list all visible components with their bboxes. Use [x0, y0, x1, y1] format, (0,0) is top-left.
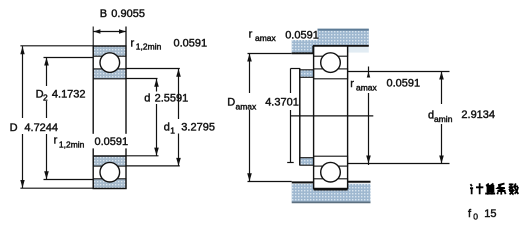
svg-text:amax: amax — [255, 33, 277, 43]
svg-text:4.1732: 4.1732 — [52, 88, 86, 100]
svg-text:amax: amax — [356, 83, 378, 93]
svg-text:2.9134: 2.9134 — [461, 109, 495, 121]
svg-text:2.5591: 2.5591 — [155, 92, 189, 104]
svg-text:1,2min: 1,2min — [136, 42, 162, 52]
svg-text:4.3701: 4.3701 — [265, 97, 299, 109]
svg-text:2: 2 — [43, 93, 48, 103]
svg-text:d: d — [164, 121, 170, 133]
svg-text:4.7244: 4.7244 — [24, 122, 58, 134]
svg-text:1,2min: 1,2min — [59, 139, 85, 149]
svg-text:r: r — [249, 29, 253, 41]
svg-text:r: r — [131, 37, 135, 49]
svg-text:15: 15 — [484, 208, 496, 220]
svg-text:3.2795: 3.2795 — [181, 121, 215, 133]
svg-text:r: r — [350, 78, 354, 90]
svg-text:0.0591: 0.0591 — [174, 37, 208, 49]
svg-text:0.0591: 0.0591 — [285, 29, 319, 41]
svg-text:B: B — [100, 8, 107, 20]
svg-text:0: 0 — [473, 212, 478, 222]
svg-text:0.0591: 0.0591 — [95, 136, 129, 148]
svg-text:0.0591: 0.0591 — [387, 78, 421, 90]
svg-text:amax: amax — [236, 101, 258, 111]
svg-text:r: r — [54, 135, 58, 147]
svg-text:amin: amin — [434, 114, 453, 124]
svg-text:d: d — [144, 92, 150, 104]
svg-text:D: D — [227, 97, 235, 109]
svg-text:0.9055: 0.9055 — [111, 8, 145, 20]
svg-text:1: 1 — [170, 125, 175, 135]
svg-text:D: D — [10, 122, 18, 134]
